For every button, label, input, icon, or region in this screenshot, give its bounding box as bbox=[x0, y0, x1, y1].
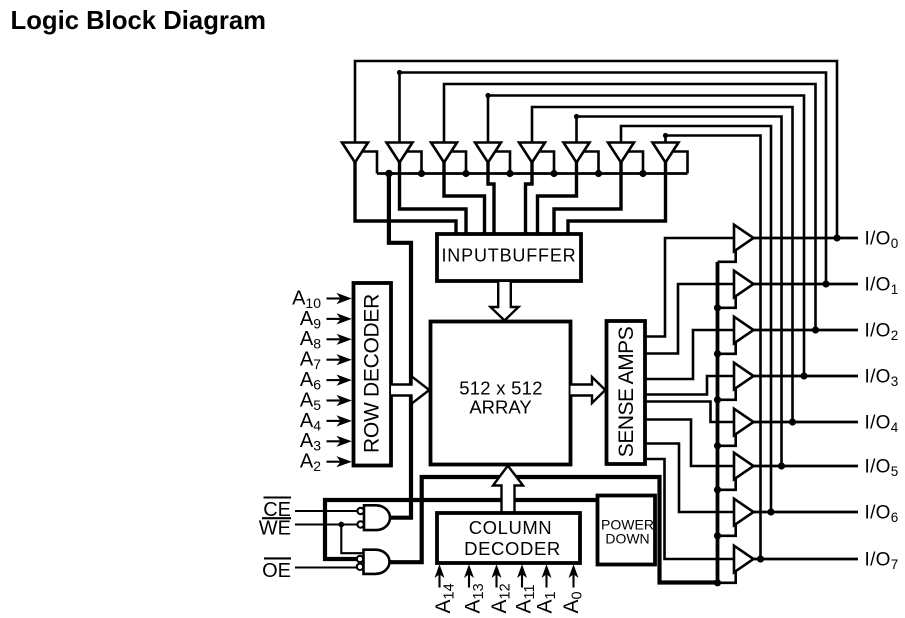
wire: I/O2 bus line from input buffer 3 to right side bbox=[444, 84, 816, 330]
wire: I/O0 output line bbox=[754, 237, 859, 240]
svg-text:SENSE AMPS: SENSE AMPS bbox=[615, 326, 638, 457]
driver Q1 (output driver triangle I/O1) bbox=[734, 271, 754, 298]
buffer U1 (input buffer triangle) bbox=[342, 143, 368, 163]
wire: I/O6 output line bbox=[754, 511, 859, 514]
wire: enable stub buffer 6 bbox=[581, 152, 599, 174]
block: POWER DOWN bbox=[598, 496, 656, 565]
input A13 (column address) bbox=[468, 574, 470, 588]
node: enable bus junction buffer 2 bbox=[418, 170, 425, 177]
wire: I/O6 bus line from input buffer 7 to right side bbox=[621, 126, 771, 512]
wire: buffer 3 output to INPUTBUFFER bbox=[444, 160, 485, 236]
wire: output-enable from gate G2 to driver enable bus bbox=[390, 477, 718, 583]
arrow: INPUTBUFFER to ARRAY bbox=[491, 282, 519, 321]
wire: sense amp output 2 to driver 2 bbox=[645, 330, 734, 379]
wire: driver 2 enable stub bbox=[718, 341, 736, 354]
node: WE branch junction bbox=[338, 522, 344, 528]
wire: driver 6 enable stub bbox=[718, 523, 736, 536]
wire: I/O0 bus line from input buffer 1 to right side bbox=[355, 61, 837, 238]
wire: sense amp output 5 to driver 5 bbox=[645, 420, 734, 467]
buffer U7 (input buffer triangle) bbox=[608, 143, 634, 163]
wire: write-enable feed from gate G1 to input-buffer enable bus bbox=[389, 174, 411, 518]
driver Q4 (output driver triangle I/O4) bbox=[734, 409, 754, 436]
wire: buffer 4 output to INPUTBUFFER bbox=[488, 160, 494, 236]
gate G2 (AND, inputs WE, power-down inverted, OE inverted) bbox=[364, 550, 390, 574]
wire: driver 4 enable stub bbox=[718, 433, 736, 446]
wire: driver 7 enable stub bbox=[718, 570, 736, 583]
wire: I/O5 output line bbox=[754, 465, 859, 468]
node: enable bus junction buffer 4 bbox=[506, 170, 513, 177]
driver Q7 (output driver triangle I/O7) bbox=[734, 546, 754, 573]
wire: I/O3 bus line from input buffer 4 to right side bbox=[488, 96, 804, 377]
node: I/O0 junction bbox=[833, 234, 840, 241]
arrow: ROW DECODER to ARRAY bbox=[391, 376, 429, 403]
node: enable bus junction buffer 6 bbox=[595, 170, 602, 177]
svg-text:ROW DECODER: ROW DECODER bbox=[361, 294, 384, 453]
node: I/O4 junction bbox=[789, 418, 796, 425]
wire: enable stub buffer 4 bbox=[492, 152, 510, 174]
wire: sense amp output 6 to driver 6 bbox=[645, 444, 734, 513]
svg-text:WE: WE bbox=[259, 518, 291, 540]
input A0 (column address) bbox=[572, 574, 574, 588]
node: corner dot line 4 bbox=[485, 93, 490, 98]
wire: driver 3 enable stub bbox=[718, 387, 736, 400]
wire: sense amp output 4 to driver 4 bbox=[645, 402, 734, 423]
arrow: ARRAY to SENSE AMPS bbox=[571, 377, 606, 403]
wire: buffer 7 output to INPUTBUFFER bbox=[554, 160, 621, 236]
node: driver enable junction 3 bbox=[714, 396, 721, 403]
block: 512 x 512 ARRAY bbox=[431, 322, 571, 465]
node: corner dot line 6 bbox=[574, 114, 579, 119]
block: COLUMN DECODER bbox=[437, 513, 580, 563]
node: driver enable junction 5 bbox=[714, 486, 721, 493]
wire: enable stub buffer 1 bbox=[359, 152, 377, 174]
wire: I/O5 bus line from input buffer 6 to right side bbox=[577, 117, 782, 467]
buffer U8 (input buffer triangle) bbox=[653, 143, 679, 163]
node: driver enable junction 6 bbox=[714, 532, 721, 539]
wire: sense amp output 1 to driver 1 bbox=[645, 284, 734, 354]
wire: I/O2 output line bbox=[754, 329, 859, 332]
buffer U4 (input buffer triangle) bbox=[475, 143, 501, 163]
input A12 (column address) bbox=[495, 574, 497, 588]
gate G1 (AND, inverted inputs CE, WE) bbox=[364, 505, 390, 530]
wire: WE branch to gate G2 bbox=[341, 525, 363, 554]
svg-text:OE: OE bbox=[262, 560, 291, 582]
node: I/O1 junction bbox=[822, 280, 829, 287]
node: I/O5 junction bbox=[778, 462, 785, 469]
driver Q6 (output driver triangle I/O6) bbox=[734, 499, 754, 526]
wire: I/O1 bus line from input buffer 2 to right side bbox=[400, 73, 827, 285]
wire: output-driver enable bus bbox=[716, 262, 720, 583]
buffer U5 (input buffer triangle) bbox=[519, 143, 545, 163]
node: corner dot line 2 bbox=[397, 70, 402, 75]
wire: input-buffer enable bus bbox=[377, 172, 688, 175]
wire: I/O4 bus line from input buffer 5 to right side bbox=[532, 107, 793, 422]
node: I/O7 junction bbox=[757, 555, 764, 562]
block: SENSE AMPS bbox=[607, 321, 646, 464]
wire: buffer 1 output to INPUTBUFFER bbox=[355, 160, 456, 236]
wire: I/O7 output line bbox=[754, 558, 859, 561]
node: enable bus junction buffer 7 bbox=[639, 170, 646, 177]
wire: buffer 2 output to INPUTBUFFER bbox=[400, 160, 467, 236]
node: I/O3 junction bbox=[800, 372, 807, 379]
driver Q5 (output driver triangle I/O5) bbox=[734, 453, 754, 480]
input A1 (column address) bbox=[545, 574, 547, 588]
wire: enable stub buffer 5 bbox=[536, 152, 554, 174]
block: INPUTBUFFER bbox=[437, 234, 581, 281]
wire: driver 5 enable stub bbox=[718, 477, 736, 490]
wire: power-down net (POWER DOWN block to gate G2) bbox=[325, 500, 598, 559]
svg-text:DOWN: DOWN bbox=[605, 531, 649, 547]
svg-text:DECODER: DECODER bbox=[464, 538, 561, 559]
node: feed junction on enable bus bbox=[385, 170, 393, 178]
wire: I/O4 output line bbox=[754, 421, 859, 424]
wire: I/O7 bus line from input buffer 8 to right side bbox=[666, 136, 761, 560]
svg-text:COLUMN: COLUMN bbox=[469, 517, 552, 538]
wire: driver 1 enable stub bbox=[718, 295, 736, 308]
svg-text:INPUTBUFFER: INPUTBUFFER bbox=[441, 246, 576, 266]
driver Q3 (output driver triangle I/O3) bbox=[734, 363, 754, 390]
wire: enable stub buffer 7 bbox=[625, 152, 643, 174]
node: driver enable junction 7 bbox=[714, 579, 721, 586]
wire: sense amp output 7 to driver 7 bbox=[645, 459, 734, 559]
wire: I/O3 output line bbox=[754, 375, 859, 378]
wire: buffer 6 output to INPUTBUFFER bbox=[538, 160, 577, 236]
node: driver enable junction 2 bbox=[714, 350, 721, 357]
node: I/O2 junction bbox=[812, 326, 819, 333]
arrow: COLUMN DECODER to ARRAY bbox=[493, 466, 523, 513]
node: I/O6 junction bbox=[767, 508, 774, 515]
node: corner dot line 8 bbox=[663, 133, 668, 138]
node: driver enable junction 1 bbox=[714, 304, 721, 311]
wire: buffer 8 output to INPUTBUFFER bbox=[568, 160, 666, 236]
wire: enable stub buffer 8 bbox=[670, 152, 688, 174]
wire: enable stub buffer 3 bbox=[448, 152, 466, 174]
svg-text:Logic Block Diagram: Logic Block Diagram bbox=[11, 7, 267, 35]
input A14 (column address) bbox=[438, 574, 440, 588]
block: ROW DECODER bbox=[354, 283, 392, 466]
buffer U3 (input buffer triangle) bbox=[431, 143, 457, 163]
svg-text:ARRAY: ARRAY bbox=[469, 396, 531, 417]
driver Q0 (output driver triangle I/O0) bbox=[734, 225, 754, 252]
input A11 (column address) bbox=[521, 574, 523, 588]
wire: driver 0 enable stub bbox=[718, 249, 736, 262]
buffer U2 (input buffer triangle) bbox=[387, 143, 413, 163]
node: driver enable junction 4 bbox=[714, 442, 721, 449]
wire: enable stub buffer 2 bbox=[404, 152, 422, 174]
wire: buffer 5 output to INPUTBUFFER bbox=[526, 160, 533, 236]
wire: sense amp output 3 to driver 3 bbox=[645, 376, 734, 395]
buffer U6 (input buffer triangle) bbox=[564, 143, 590, 163]
node: enable bus junction buffer 5 bbox=[550, 170, 557, 177]
wire: sense amp output 0 to driver 0 bbox=[645, 238, 734, 337]
node: enable bus junction buffer 3 bbox=[462, 170, 469, 177]
driver Q2 (output driver triangle I/O2) bbox=[734, 317, 754, 344]
wire: I/O1 output line bbox=[754, 283, 859, 286]
